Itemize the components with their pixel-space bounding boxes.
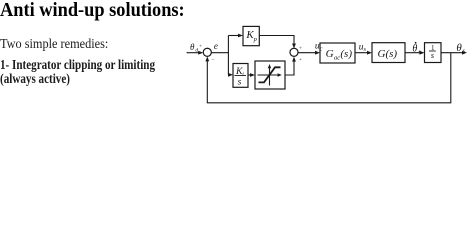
svg-text:(s): (s) bbox=[340, 48, 352, 60]
wire S2 to Gac with arrow bbox=[298, 51, 320, 55]
sign plus S1 bbox=[199, 44, 202, 50]
svg-text:p: p bbox=[253, 36, 258, 43]
item text bbox=[0, 59, 155, 87]
label G(s) bbox=[378, 48, 398, 60]
svg-text:s: s bbox=[463, 49, 466, 55]
wire branch vertical bbox=[227, 36, 229, 75]
svg-text:+: + bbox=[199, 44, 202, 50]
saturation axis vertical bbox=[268, 64, 271, 86]
svg-text:+: + bbox=[299, 46, 302, 52]
block saturation bbox=[255, 61, 285, 89]
svg-text:θ: θ bbox=[190, 42, 195, 52]
svg-text:ac: ac bbox=[334, 55, 340, 62]
svg-text:s: s bbox=[431, 51, 434, 60]
saturation curve bbox=[259, 67, 281, 82]
sign plus S2 top bbox=[299, 46, 302, 52]
block G bbox=[372, 43, 405, 63]
label u_s bbox=[359, 42, 367, 53]
wire output arrow bbox=[441, 51, 467, 55]
sign minus S1 bbox=[211, 57, 215, 63]
svg-text:G(s): G(s) bbox=[378, 48, 398, 60]
saturation axis horizontal bbox=[258, 73, 282, 76]
subtitle text bbox=[0, 37, 108, 51]
wire branch to Kp with arrow bbox=[228, 34, 243, 38]
svg-text:s: s bbox=[238, 77, 242, 87]
svg-text:+: + bbox=[299, 57, 302, 63]
wire feedback bbox=[205, 53, 450, 103]
block Gac bbox=[320, 43, 355, 63]
label theta_d input bbox=[190, 42, 198, 54]
svg-text:θ: θ bbox=[456, 42, 462, 54]
svg-text:e: e bbox=[214, 41, 218, 51]
wire saturation out to S2 bottom with arrow bbox=[285, 57, 296, 75]
svg-text:i: i bbox=[242, 71, 244, 77]
block Ki/s bbox=[233, 64, 248, 88]
title text bbox=[0, 1, 185, 21]
wire S1 to branch node bbox=[211, 52, 228, 54]
summing junction S1 bbox=[203, 48, 211, 56]
wire Ki to saturation with arrow bbox=[248, 73, 255, 77]
svg-text:d: d bbox=[195, 48, 198, 54]
label theta dot s bbox=[412, 42, 421, 55]
svg-text:c: c bbox=[320, 46, 323, 52]
label Gac(s) bbox=[326, 48, 353, 62]
sign plus S2 bottom bbox=[299, 57, 302, 63]
label u_c bbox=[315, 42, 323, 53]
label Kp bbox=[245, 29, 257, 43]
summing junction S2 bbox=[290, 48, 298, 56]
wire Gac to G with arrow bbox=[355, 51, 372, 55]
block Kp bbox=[243, 26, 259, 45]
wire input arrow bbox=[187, 51, 204, 55]
svg-text:G: G bbox=[326, 48, 334, 60]
label e bbox=[214, 41, 218, 51]
svg-text:θ: θ bbox=[412, 44, 417, 55]
wire Kp out to S2 top with arrow bbox=[259, 36, 296, 49]
label theta_s output bbox=[456, 42, 465, 55]
svg-text:−: − bbox=[211, 57, 215, 63]
label s under Ki bbox=[238, 77, 242, 87]
label 1/s integrator bbox=[429, 44, 436, 60]
block integrator 1/s bbox=[425, 43, 442, 63]
wire G to integrator with arrow bbox=[405, 51, 425, 55]
wire branch to Ki with arrow bbox=[228, 73, 233, 77]
label Ki bbox=[235, 66, 244, 77]
fraction bar Ki/s bbox=[234, 75, 246, 77]
